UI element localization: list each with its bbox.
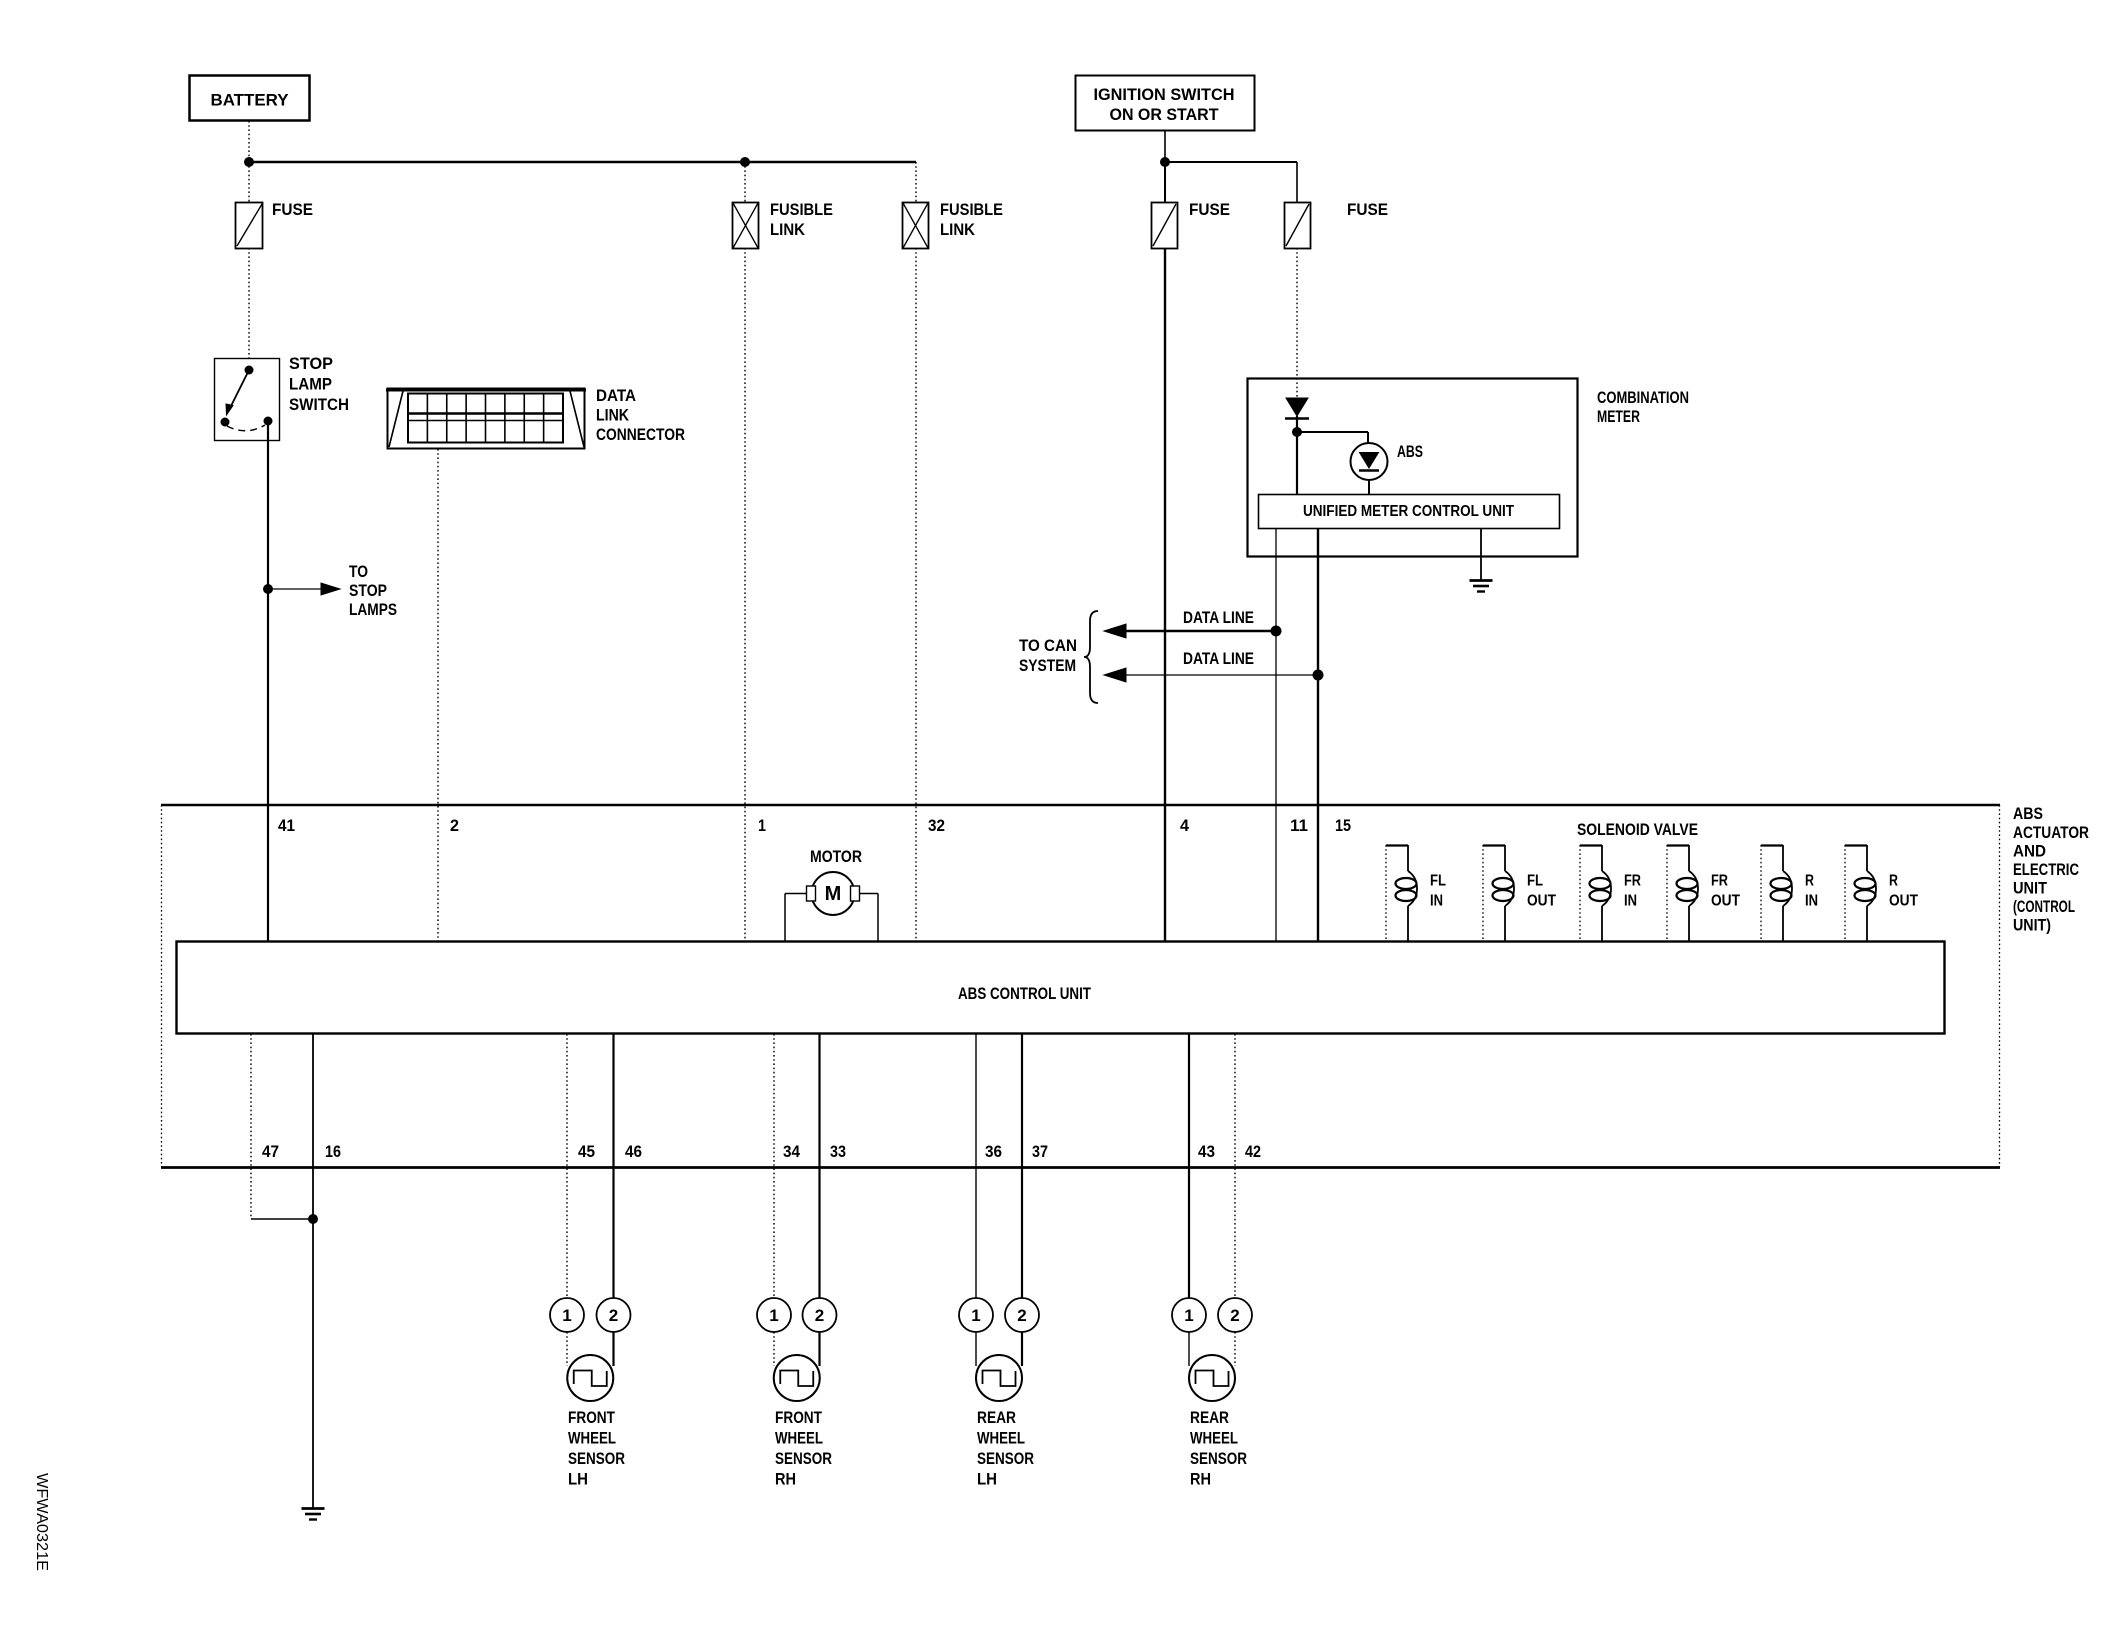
rear wheel sensor RH	[1172, 1298, 1252, 1489]
wire fuse F1 to stop lamp switch	[248, 248, 250, 358]
wire bus to fuse F2	[1296, 162, 1298, 202]
ABS actuator and electric unit box	[161, 804, 2089, 1168]
wire ignition bus	[1165, 161, 1297, 163]
svg-text:16: 16	[325, 1142, 341, 1161]
pin 16 wire ground net	[312, 1034, 314, 1508]
svg-text:IN: IN	[1430, 893, 1443, 910]
wire pin 11 net	[1275, 529, 1277, 941]
svg-text:FR: FR	[1711, 873, 1728, 890]
svg-text:FUSIBLE: FUSIBLE	[770, 200, 833, 219]
wire battery to junction	[248, 121, 250, 162]
svg-text:LAMPS: LAMPS	[349, 600, 397, 619]
fusible link FL2	[903, 200, 1004, 249]
svg-text:11: 11	[1290, 816, 1308, 835]
svg-text:RH: RH	[775, 1470, 796, 1489]
svg-text:DATA LINE: DATA LINE	[1183, 649, 1254, 668]
svg-text:COMBINATION: COMBINATION	[1597, 388, 1689, 407]
pin 42 label	[1245, 1142, 1261, 1161]
solenoid valve FL IN	[1386, 845, 1446, 941]
svg-text:WFWA0321E: WFWA0321E	[33, 1473, 50, 1571]
svg-text:UNIFIED METER CONTROL UNIT: UNIFIED METER CONTROL UNIT	[1303, 503, 1514, 520]
solenoid valve label	[1577, 820, 1698, 839]
pin 34 wire	[773, 1034, 775, 1298]
junction pin 47 to 16	[308, 1214, 318, 1224]
svg-text:MOTOR: MOTOR	[810, 847, 862, 866]
svg-text:CONNECTOR: CONNECTOR	[596, 425, 685, 444]
motor M1	[785, 847, 878, 941]
svg-text:ABS: ABS	[1397, 442, 1423, 461]
solenoid valve R OUT	[1845, 845, 1918, 941]
ground meter	[1470, 581, 1493, 592]
svg-text:LINK: LINK	[770, 220, 806, 239]
svg-text:FR: FR	[1624, 873, 1641, 890]
pin 16 label	[325, 1142, 341, 1161]
wire ABS lamp to unified meter control unit	[1368, 480, 1370, 494]
svg-text:IGNITION SWITCH: IGNITION SWITCH	[1094, 85, 1235, 104]
svg-text:FUSE: FUSE	[1189, 200, 1230, 219]
pin 37 label	[1032, 1142, 1048, 1161]
svg-text:M: M	[825, 883, 842, 905]
svg-text:R: R	[1805, 873, 1814, 890]
svg-text:WHEEL: WHEEL	[775, 1429, 823, 1448]
svg-text:36: 36	[985, 1142, 1002, 1161]
pin 36 label	[985, 1142, 1002, 1161]
svg-text:LINK: LINK	[940, 220, 976, 239]
wire main battery bus	[249, 161, 916, 163]
wire junction to fuse F1	[248, 162, 250, 202]
svg-text:4: 4	[1180, 816, 1190, 835]
svg-text:FL: FL	[1527, 873, 1543, 890]
svg-text:2: 2	[1230, 1306, 1239, 1325]
pin 34 label	[783, 1142, 800, 1161]
front wheel sensor RH	[757, 1298, 837, 1489]
data link connector J1	[386, 386, 685, 449]
fuse F2	[1152, 200, 1231, 249]
solenoid valve FR IN	[1580, 845, 1641, 941]
svg-text:BATTERY: BATTERY	[211, 91, 290, 110]
svg-text:IN: IN	[1805, 893, 1818, 910]
svg-text:STOP: STOP	[289, 354, 333, 373]
pin 46 label	[625, 1142, 642, 1161]
svg-text:2: 2	[1017, 1306, 1026, 1325]
svg-text:45: 45	[578, 1142, 595, 1161]
svg-text:2: 2	[450, 816, 459, 835]
svg-text:FL: FL	[1430, 873, 1446, 890]
svg-text:SENSOR: SENSOR	[1190, 1449, 1247, 1468]
svg-text:LH: LH	[977, 1470, 997, 1489]
pin 37 wire	[1021, 1034, 1023, 1298]
front wheel sensor LH	[550, 1298, 631, 1489]
svg-text:1: 1	[769, 1306, 778, 1325]
svg-text:RH: RH	[1190, 1470, 1211, 1489]
pin 42 wire	[1234, 1034, 1236, 1298]
svg-text:FRONT: FRONT	[568, 1408, 615, 1427]
svg-text:WHEEL: WHEEL	[568, 1429, 616, 1448]
brace to CAN system	[1019, 611, 1098, 703]
combination meter box	[1248, 379, 1690, 557]
pin 33 wire	[818, 1034, 820, 1298]
svg-text:47: 47	[262, 1142, 279, 1161]
svg-text:SOLENOID VALVE: SOLENOID VALVE	[1577, 820, 1698, 839]
wire data line 1	[1104, 608, 1276, 638]
svg-text:SWITCH: SWITCH	[289, 395, 349, 414]
pin 32 label	[928, 816, 945, 835]
svg-text:(CONTROL: (CONTROL	[2013, 897, 2075, 916]
fusible link FL1	[733, 200, 834, 249]
junction to stop lamps	[263, 584, 273, 594]
ABS warning lamp LP1	[1351, 442, 1424, 480]
svg-text:OUT: OUT	[1889, 893, 1918, 910]
svg-text:IN: IN	[1624, 893, 1637, 910]
rear wheel sensor LH	[959, 1298, 1039, 1489]
svg-text:WHEEL: WHEEL	[1190, 1429, 1238, 1448]
svg-text:1: 1	[758, 816, 766, 835]
pin 36 wire	[975, 1034, 977, 1298]
svg-text:33: 33	[830, 1142, 846, 1161]
pin 2 label	[450, 816, 459, 835]
fuse F3	[1285, 200, 1389, 249]
fuse F1	[236, 200, 314, 249]
svg-text:ELECTRIC: ELECTRIC	[2013, 860, 2079, 879]
svg-text:41: 41	[278, 816, 295, 835]
junction ignition bus	[1160, 157, 1170, 167]
svg-text:FUSIBLE: FUSIBLE	[940, 200, 1003, 219]
svg-text:43: 43	[1198, 1142, 1215, 1161]
pin 45 wire	[566, 1034, 568, 1298]
svg-text:SENSOR: SENSOR	[568, 1449, 625, 1468]
svg-text:ON OR START: ON OR START	[1110, 105, 1220, 124]
wire stop lamp switch to pin 41	[267, 425, 269, 941]
svg-text:UNIT): UNIT)	[2013, 916, 2051, 935]
svg-text:34: 34	[783, 1142, 800, 1161]
junction fusible link FL1	[740, 157, 750, 167]
wire pin 15 net	[1317, 529, 1319, 941]
svg-text:REAR: REAR	[1190, 1408, 1229, 1427]
svg-text:SENSOR: SENSOR	[977, 1449, 1034, 1468]
svg-text:UNIT: UNIT	[2013, 879, 2048, 898]
wire bus corner to fusible link FL2	[915, 162, 917, 202]
junction battery bus	[244, 157, 254, 167]
svg-text:1: 1	[971, 1306, 980, 1325]
pin 41 label	[278, 816, 295, 835]
svg-text:1: 1	[1184, 1306, 1193, 1325]
svg-text:DATA LINE: DATA LINE	[1183, 608, 1254, 627]
wire fuse F3 to combination meter	[1296, 248, 1298, 398]
svg-text:AND: AND	[2013, 842, 2046, 861]
ignition switch source	[1076, 76, 1255, 131]
svg-text:FRONT: FRONT	[775, 1408, 822, 1427]
svg-text:FUSE: FUSE	[272, 200, 313, 219]
svg-text:46: 46	[625, 1142, 642, 1161]
svg-text:DATA: DATA	[596, 386, 636, 405]
svg-text:ACTUATOR: ACTUATOR	[2013, 823, 2089, 842]
pin 15 label	[1335, 816, 1351, 835]
svg-text:ABS CONTROL UNIT: ABS CONTROL UNIT	[958, 984, 1091, 1003]
ground main	[302, 1509, 325, 1520]
svg-text:STOP: STOP	[349, 581, 387, 600]
wire diode node to ABS lamp	[1297, 432, 1368, 443]
pin 1 label	[758, 816, 766, 835]
unified meter control unit	[1259, 495, 1560, 529]
svg-text:42: 42	[1245, 1142, 1261, 1161]
pin 47 label	[262, 1142, 279, 1161]
svg-text:LAMP: LAMP	[289, 375, 332, 394]
svg-text:FUSE: FUSE	[1347, 200, 1388, 219]
pin 4 label	[1180, 816, 1190, 835]
battery B1	[190, 76, 310, 121]
solenoid valve FR OUT	[1667, 845, 1740, 941]
stop lamp switch S1	[215, 354, 350, 441]
svg-text:TO CAN: TO CAN	[1019, 636, 1077, 655]
svg-text:TO: TO	[349, 562, 368, 581]
wire junction to fuse F2	[1164, 162, 1166, 202]
wire fusible link FL1 to pin 1	[744, 248, 746, 941]
svg-text:REAR: REAR	[977, 1408, 1016, 1427]
svg-text:37: 37	[1032, 1142, 1048, 1161]
svg-text:WHEEL: WHEEL	[977, 1429, 1025, 1448]
ABS control unit box	[177, 942, 1945, 1034]
svg-text:R: R	[1889, 873, 1898, 890]
wire diode node to unified meter control unit	[1296, 432, 1298, 494]
svg-text:LINK: LINK	[596, 406, 630, 425]
svg-text:OUT: OUT	[1527, 893, 1556, 910]
wire fuse F2 to pin 4	[1164, 248, 1166, 941]
pin 11 label	[1290, 816, 1308, 835]
svg-text:SENSOR: SENSOR	[775, 1449, 832, 1468]
diode D1	[1285, 398, 1309, 432]
wire data link connector to pin 2	[437, 449, 439, 941]
arrow to stop lamps	[268, 562, 397, 619]
junction data line 1	[1271, 626, 1282, 637]
solenoid valve FL OUT	[1483, 845, 1556, 941]
svg-text:2: 2	[815, 1306, 824, 1325]
wire fusible link FL2 to pin 32	[915, 248, 917, 941]
svg-text:15: 15	[1335, 816, 1351, 835]
pin 43 label	[1198, 1142, 1215, 1161]
wire ignition to junction	[1164, 131, 1166, 162]
svg-text:ABS: ABS	[2013, 804, 2043, 823]
pin 47 wire	[251, 1034, 313, 1219]
svg-text:SYSTEM: SYSTEM	[1019, 656, 1076, 675]
pin 46 wire	[612, 1034, 614, 1298]
wire data line 2	[1104, 649, 1318, 682]
svg-text:METER: METER	[1597, 407, 1640, 426]
pin 45 label	[578, 1142, 595, 1161]
svg-text:32: 32	[928, 816, 945, 835]
junction data line 2	[1313, 670, 1324, 681]
wire unified meter unit ground lead	[1480, 529, 1482, 580]
wire junction to fusible link FL1	[744, 162, 746, 202]
pin 43 wire	[1188, 1034, 1190, 1298]
figure code WFWA0321E	[33, 1473, 50, 1571]
solenoid valve R IN	[1761, 845, 1818, 941]
svg-text:1: 1	[562, 1306, 571, 1325]
pin 33 label	[830, 1142, 846, 1161]
svg-text:LH: LH	[568, 1470, 588, 1489]
junction diode node	[1292, 427, 1302, 437]
svg-text:2: 2	[609, 1306, 618, 1325]
svg-text:OUT: OUT	[1711, 893, 1740, 910]
